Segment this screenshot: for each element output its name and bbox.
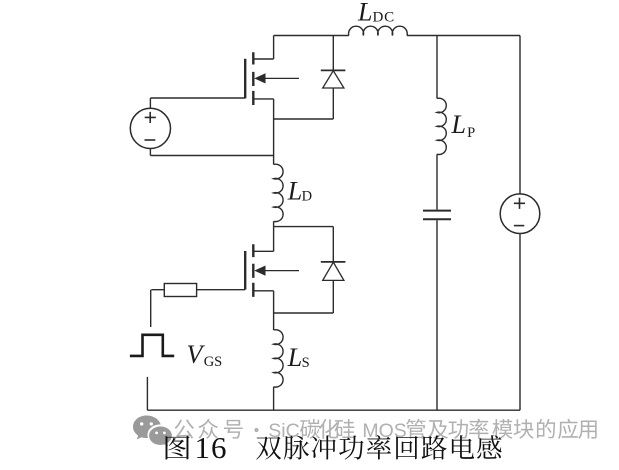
voltage source V2 circle xyxy=(500,194,540,234)
voltage source V1 plus xyxy=(145,112,156,123)
transistor Q2 source wire xyxy=(254,291,274,330)
svg-text:DC: DC xyxy=(373,10,395,26)
svg-text:16: 16 xyxy=(195,430,228,465)
inductor LS xyxy=(274,330,283,387)
watermark text xyxy=(174,419,194,438)
transistor Q2 drain wire xyxy=(254,250,274,252)
caption figure number xyxy=(166,436,190,460)
diode D2 triangle xyxy=(323,262,344,280)
svg-text:D: D xyxy=(302,189,312,205)
wire right branch upper xyxy=(519,36,521,195)
transistor Q1 drain wire xyxy=(254,36,274,60)
pulse source VGS symbol xyxy=(130,335,174,356)
transistor Q1 body arrow xyxy=(263,77,299,79)
resistor Rg xyxy=(164,284,196,297)
wire LD to Q2 drain xyxy=(273,221,275,251)
svg-text:P: P xyxy=(467,125,475,141)
wire Lp to capacitor xyxy=(436,154,438,209)
diode D1 triangle xyxy=(323,71,344,88)
capacitor C plates xyxy=(423,211,451,220)
wire LS to bottom bus xyxy=(273,387,275,410)
voltage source V2 minus xyxy=(514,225,524,227)
svg-text:GS: GS xyxy=(204,354,223,370)
wire Q1 gate xyxy=(150,98,245,108)
diode D1 cathode wire xyxy=(332,36,334,71)
transistor Q2 body arrow xyxy=(263,270,299,272)
transistor Q2 gate bar xyxy=(244,251,246,290)
wire Lp branch top xyxy=(436,36,438,99)
wire Q2 source to diode D2 xyxy=(274,312,334,314)
transistor Q1 gate bar xyxy=(244,59,246,99)
inductor LP xyxy=(437,98,446,154)
svg-text:L: L xyxy=(357,0,372,26)
voltage source V1 minus xyxy=(145,139,156,141)
voltage source V2 plus xyxy=(514,198,525,209)
svg-text:L: L xyxy=(287,343,302,372)
wire right branch lower xyxy=(519,234,521,411)
inductor LDC xyxy=(349,26,408,35)
wire bottom bus xyxy=(147,409,520,411)
svg-text:S: S xyxy=(302,355,310,371)
wire gate resistor left xyxy=(151,290,165,327)
wire capacitor to bottom xyxy=(436,220,438,410)
transistor Q2 channel bars xyxy=(252,244,254,297)
wire top bus right xyxy=(407,35,520,37)
transistor Q1 source wire xyxy=(254,99,274,165)
wire LD to diode D2 xyxy=(274,226,334,228)
wire Q1 source to diode D1 xyxy=(274,118,334,120)
voltage source V1 circle xyxy=(130,108,170,148)
diode D1 anode wire xyxy=(332,88,334,119)
diode D1 cathode bar xyxy=(321,69,346,71)
wire V1 to Q1 source xyxy=(150,149,273,156)
diode D2 cathode bar xyxy=(321,261,346,263)
wire VGS to bottom bus xyxy=(146,377,148,410)
inductor LD xyxy=(274,164,283,221)
diode D2 anode wire xyxy=(332,280,334,313)
wire top bus left xyxy=(274,35,349,37)
svg-text:SiC: SiC xyxy=(268,420,299,442)
watermark wechat icon xyxy=(133,415,172,446)
diode D2 cathode wire xyxy=(332,227,334,262)
caption title xyxy=(256,436,281,459)
transistor Q1 channel bars xyxy=(252,52,254,105)
wire gate resistor right xyxy=(197,289,246,291)
svg-text:L: L xyxy=(287,177,302,206)
svg-text:L: L xyxy=(451,110,466,139)
